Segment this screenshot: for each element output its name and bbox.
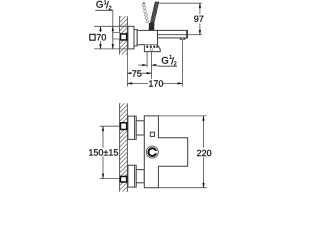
union G1/2 (top view)	[120, 34, 126, 40]
escutcheon top (front view)	[128, 116, 136, 139]
union G1/2 bottom (front view)	[120, 176, 126, 182]
dimension 97	[159, 3, 203, 35]
lever handle (main position, hatched)	[150, 2, 158, 23]
aerator under spout tip	[180, 38, 185, 39]
inlet pipe nipple behind wall	[113, 33, 120, 39]
wall (section, hatched) top view	[120, 16, 128, 54]
dimension 150±15	[88, 126, 120, 178]
lever hub	[149, 23, 155, 30]
escutcheon step	[134, 30, 137, 46]
wall (section, hatched) front view	[120, 103, 128, 191]
dimension 170	[127, 40, 182, 87]
dimension 70: extension lines	[94, 26, 128, 49]
connector nut top	[136, 121, 144, 135]
mixer body (top view)	[137, 30, 157, 44]
shower outlet block under body	[144, 45, 160, 52]
label G 1/2 (top left) with underline	[95, 0, 113, 10]
label square-70	[90, 34, 106, 40]
diverter knob	[146, 146, 158, 158]
dimension 70: dimension line and arrows	[100, 26, 102, 49]
union G1/2 top (front view)	[120, 123, 126, 130]
lever alternate position (coil drawn)	[142, 2, 149, 23]
connector nut bottom	[136, 170, 144, 183]
G 1/2 callout at shower outlet	[138, 52, 177, 79]
dimension 75	[127, 69, 151, 77]
leader / second dimension line at union	[112, 10, 114, 49]
small square detail	[150, 132, 154, 136]
body with spout silhouette (front view)	[144, 116, 187, 188]
spout (top view)	[158, 30, 188, 38]
escutcheon (top view)	[128, 26, 134, 49]
dimension 220	[158, 116, 211, 188]
escutcheon bottom (front view)	[128, 165, 136, 187]
